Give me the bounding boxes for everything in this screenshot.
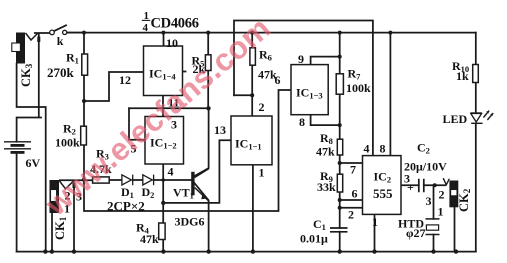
svg-text:2: 2: [439, 188, 445, 202]
svg-text:3DG6: 3DG6: [175, 215, 205, 229]
svg-text:7: 7: [350, 163, 356, 177]
svg-text:k: k: [57, 34, 64, 48]
svg-text:1: 1: [372, 215, 378, 229]
svg-text:47k: 47k: [140, 232, 159, 246]
svg-text:4: 4: [143, 22, 149, 34]
svg-text:0.01μ: 0.01μ: [300, 232, 328, 246]
svg-text:1: 1: [259, 166, 265, 180]
svg-text:10: 10: [166, 36, 178, 50]
svg-text:12: 12: [119, 73, 131, 87]
svg-text:20μ/10V: 20μ/10V: [404, 160, 447, 174]
svg-text:9: 9: [298, 52, 304, 66]
svg-text:LED: LED: [443, 112, 468, 126]
svg-text:8: 8: [299, 115, 305, 129]
svg-text:2: 2: [348, 208, 354, 222]
svg-text:4: 4: [364, 142, 370, 156]
svg-text:1k: 1k: [456, 69, 469, 83]
svg-text:555: 555: [373, 186, 393, 201]
svg-text:33k: 33k: [317, 180, 336, 194]
svg-text:CD4066: CD4066: [151, 16, 199, 32]
svg-text:6: 6: [275, 73, 281, 87]
svg-text:4: 4: [168, 165, 174, 179]
svg-text:6: 6: [352, 187, 358, 201]
svg-text:6V: 6V: [26, 156, 41, 170]
svg-text:2: 2: [259, 100, 265, 114]
svg-text:1: 1: [438, 205, 444, 219]
svg-text:270k: 270k: [47, 65, 75, 80]
svg-text:100k: 100k: [346, 81, 371, 95]
svg-text:2CP×2: 2CP×2: [107, 199, 145, 214]
svg-text:8: 8: [380, 142, 386, 156]
svg-text:3: 3: [426, 194, 432, 208]
svg-text:3: 3: [404, 172, 410, 186]
svg-text:φ27: φ27: [406, 226, 426, 240]
svg-text:47k: 47k: [316, 145, 335, 159]
svg-text:100k: 100k: [55, 136, 80, 150]
svg-text:13: 13: [214, 123, 226, 137]
